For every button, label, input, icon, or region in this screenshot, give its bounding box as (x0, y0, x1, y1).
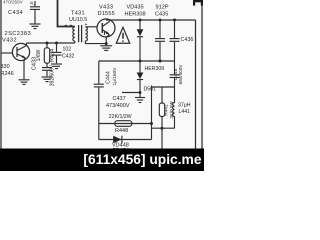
transistor V432 (12, 43, 29, 60)
wire left side box (98, 124, 100, 140)
capacitor C445 (170, 61, 180, 87)
svg-text:684/400V: 684/400V (178, 64, 183, 85)
svg-text:R448: R448 (115, 128, 128, 134)
wire base V432 (1, 52, 12, 54)
ground (V433 emitter) (100, 46, 112, 51)
capacitor C432 (52, 43, 62, 63)
ground (V432 emitter) (19, 80, 30, 85)
warning symbol (116, 27, 129, 43)
transformer T431 secondary (85, 27, 87, 41)
node R434 junction (46, 42, 49, 45)
wire collector V433 (109, 20, 111, 22)
svg-text:1μ/160V: 1μ/160V (112, 67, 118, 86)
top-right corner marker (193, 0, 203, 6)
node C435 top (159, 19, 162, 22)
wire right shared vertical (151, 86, 153, 140)
svg-text:4L: 4L (30, 1, 36, 6)
svg-text:22K/1/2W: 22K/1/2W (109, 114, 132, 120)
capacitor C434 (30, 1, 40, 24)
svg-text:L441: L441 (179, 109, 191, 115)
left border (0, 0, 2, 149)
capacitor C436 (170, 20, 180, 61)
svg-text:R246: R246 (1, 71, 14, 77)
wire mid bus (99, 60, 175, 62)
capacitor C433 (42, 68, 52, 77)
svg-text:473/400V: 473/400V (106, 103, 130, 109)
diode VD448 (113, 136, 122, 144)
svg-text:37μH: 37μH (178, 103, 191, 109)
ground (C433) (42, 77, 53, 82)
svg-text:V433: V433 (99, 5, 113, 11)
wire R448 row (99, 123, 152, 125)
svg-text:2SC2383: 2SC2383 (5, 31, 32, 37)
wire stem to border (161, 128, 163, 148)
resistor R434 (44, 43, 49, 67)
transformer T431 primary (73, 27, 75, 41)
wire box top (152, 86, 175, 88)
node R448 right (150, 122, 153, 125)
wire VD448 row (99, 139, 152, 141)
svg-text:C433: C433 (32, 57, 38, 70)
black bar (0, 149, 204, 172)
transformer core (79, 25, 82, 42)
wire emitter V432 (24, 58, 25, 79)
ground (C434) (30, 24, 41, 29)
node VD435 bottom (139, 60, 142, 63)
node VD435 top (139, 19, 142, 22)
svg-text:102: 102 (63, 47, 72, 53)
svg-text:V432: V432 (2, 38, 17, 44)
node box bottom mid (161, 127, 164, 130)
wire emitter V433 (106, 35, 109, 45)
wire stub left of D501 node (122, 92, 140, 94)
capacitor C444 (94, 61, 104, 124)
right border (201, 0, 203, 149)
svg-text:C432: C432 (62, 54, 75, 60)
ground (HER309) (135, 98, 145, 103)
svg-text:HER309: HER309 (145, 66, 165, 72)
svg-text:HER308: HER308 (125, 11, 146, 17)
svg-text:C434: C434 (8, 10, 23, 16)
svg-text:C435: C435 (155, 11, 168, 17)
node C436 top (173, 19, 176, 22)
wire B+ feed from top (58, 0, 75, 27)
node D501 junction (139, 91, 142, 94)
wire right bus vertical (195, 20, 197, 149)
diode VD435 (137, 20, 144, 61)
svg-text:392/500V: 392/500V (50, 64, 56, 86)
svg-text:C436: C436 (181, 37, 194, 43)
svg-text:D1555: D1555 (98, 11, 115, 17)
svg-text:VD435: VD435 (127, 5, 144, 11)
wire primary bottom (74, 41, 76, 43)
svg-text:912P: 912P (156, 5, 169, 11)
svg-text:C437: C437 (113, 96, 126, 102)
wire HV bus (106, 19, 196, 21)
svg-text:330: 330 (1, 64, 10, 70)
node C432 junction (55, 42, 58, 45)
resistor R448 (115, 121, 132, 127)
diode HER309 (137, 61, 144, 97)
resistor R441 (159, 87, 164, 128)
transistor V433 (97, 19, 115, 37)
ground (C432) (51, 64, 62, 69)
node C435 bottom (159, 60, 162, 63)
wire collector bus (27, 42, 75, 44)
wire collector V432 (25, 43, 26, 46)
svg-text:470/250V: 470/250V (3, 0, 24, 4)
svg-text:[611x456] upic.me: [611x456] upic.me (83, 152, 201, 167)
inductor L441 (173, 87, 175, 128)
capacitor C435 (155, 20, 165, 61)
node emitter junction (105, 42, 108, 45)
svg-text:T431: T431 (71, 11, 85, 17)
wire secondary top to base (85, 26, 97, 28)
wire secondary bottom (85, 41, 106, 44)
wire box bottom (152, 127, 175, 129)
svg-text:C444: C444 (106, 71, 112, 84)
